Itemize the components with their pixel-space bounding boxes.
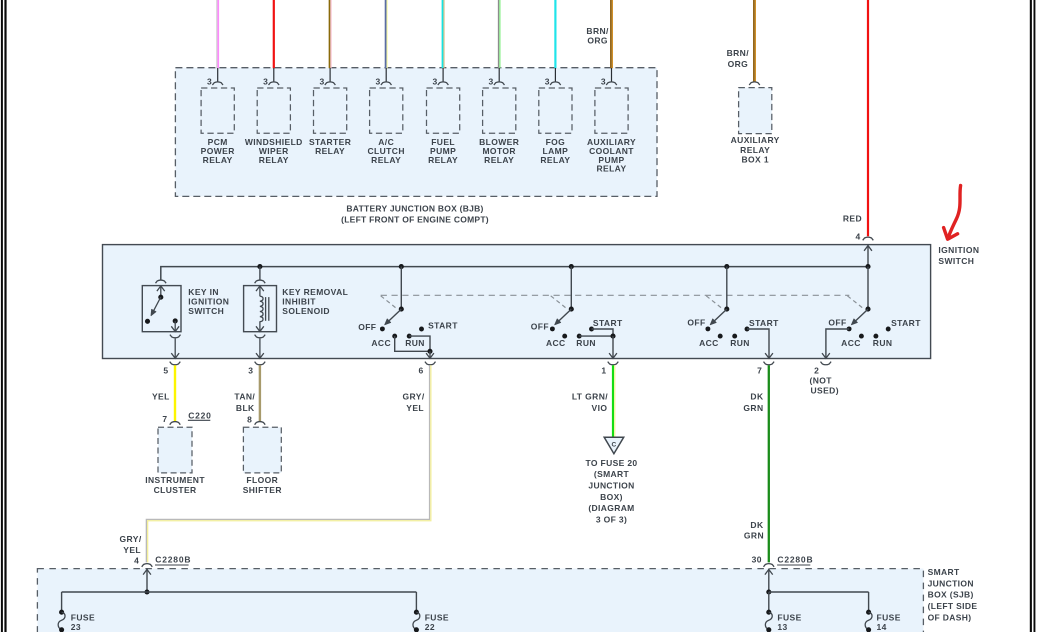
section 4 contacts OFF/ACC/RUN/START — [847, 326, 852, 331]
section 2 wiper feed — [570, 267, 572, 310]
svg-text:3: 3 — [545, 76, 550, 86]
auxiliary relay box 1 — [739, 88, 772, 134]
svg-text:CLUSTER: CLUSTER — [154, 485, 197, 495]
fuel pump relay — [427, 88, 460, 133]
svg-text:AUXILIARY: AUXILIARY — [731, 135, 780, 145]
svg-text:YEL: YEL — [152, 392, 170, 402]
svg-text:RUN: RUN — [576, 338, 596, 348]
svg-text:LT GRN/: LT GRN/ — [572, 392, 608, 402]
svg-text:23: 23 — [71, 622, 81, 632]
wire TAN/BLK — [259, 365, 261, 421]
svg-text:START: START — [593, 318, 623, 328]
svg-text:GRY/: GRY/ — [120, 534, 142, 544]
wire YEL — [174, 365, 176, 421]
ignition switch pin 7 — [764, 362, 775, 365]
svg-text:2: 2 — [814, 366, 819, 376]
fuel pump relay pin 3 lead — [442, 68, 444, 82]
svg-text:OFF: OFF — [531, 322, 549, 332]
svg-text:START: START — [891, 318, 921, 328]
fog lamp relay — [539, 88, 572, 133]
svg-text:3: 3 — [248, 366, 253, 376]
svg-text:RELAY: RELAY — [203, 155, 233, 165]
svg-text:3: 3 — [207, 76, 212, 86]
svg-text:DK: DK — [750, 520, 764, 530]
node: SJB left rail junction — [144, 589, 149, 594]
svg-text:RELAY: RELAY — [315, 146, 345, 156]
battery junction box (BJB) — [175, 68, 657, 197]
blower motor relay — [483, 88, 516, 133]
section 2 contacts OFF/ACC/RUN/START — [550, 326, 555, 331]
key-in switch blade — [152, 297, 161, 313]
svg-text:SHIFTER: SHIFTER — [243, 485, 282, 495]
svg-text:BRN/: BRN/ — [727, 48, 750, 58]
svg-text:3: 3 — [263, 76, 268, 86]
svg-text:RELAY: RELAY — [428, 155, 458, 165]
SJB left rail — [62, 591, 417, 593]
svg-text:ORG: ORG — [587, 36, 608, 46]
svg-text:6: 6 — [419, 366, 424, 376]
section 3 contacts OFF/ACC/RUN/START — [705, 326, 710, 331]
svg-text:RELAY: RELAY — [484, 155, 514, 165]
node: bus junction — [569, 264, 574, 269]
section 3 wiper feed — [726, 267, 728, 310]
A/C clutch relay pin 3 lead — [385, 68, 387, 82]
key-in exit connector — [170, 335, 181, 338]
instrument cluster — [158, 427, 192, 473]
wire CYN/TAN — [442, 0, 444, 68]
key-in switch exit arrow — [174, 321, 176, 331]
svg-text:1: 1 — [601, 366, 606, 376]
wire GRY/PK — [216, 0, 218, 68]
svg-text:USED): USED) — [811, 386, 839, 396]
svg-text:RELAY: RELAY — [740, 145, 770, 155]
svg-text:8: 8 — [247, 415, 252, 425]
svg-text:KEY IN: KEY IN — [188, 287, 219, 297]
svg-text:JUNCTION: JUNCTION — [588, 481, 634, 491]
wire CYN — [554, 0, 556, 68]
svg-text:C2280B: C2280B — [155, 555, 191, 565]
svg-text:OFF: OFF — [358, 322, 376, 332]
section 1 contacts OFF/ACC/RUN/START — [380, 326, 385, 331]
svg-text:RELAY: RELAY — [371, 155, 401, 165]
svg-text:ACC: ACC — [371, 338, 391, 348]
svg-text:GRN: GRN — [743, 403, 763, 413]
svg-text:30: 30 — [752, 555, 762, 565]
ignition switch box — [103, 245, 931, 359]
SJB pin 30 entry arrow — [768, 569, 770, 592]
svg-text:3: 3 — [319, 76, 324, 86]
key removal inhibit solenoid L1 — [244, 286, 277, 332]
svg-text:FUSE: FUSE — [425, 613, 449, 623]
svg-text:INHIBIT: INHIBIT — [282, 297, 316, 307]
wire RED — [273, 0, 275, 68]
solenoid core — [265, 297, 267, 321]
ignition switch pin 3 — [255, 362, 266, 365]
svg-text:IGNITION: IGNITION — [938, 245, 979, 255]
section 3 output — [747, 329, 769, 357]
fuse 14 — [866, 610, 871, 615]
key-in switch contacts — [145, 319, 150, 324]
SJB pin 4 entry arrow — [146, 569, 148, 592]
mechanical linkage (dashed) — [381, 294, 850, 296]
svg-text:5: 5 — [163, 366, 168, 376]
PCM power relay — [201, 88, 234, 133]
svg-text:KEY REMOVAL: KEY REMOVAL — [282, 287, 348, 297]
section 1 output — [395, 336, 430, 351]
section 3 wiper pivot — [724, 307, 729, 312]
svg-text:GRY/: GRY/ — [403, 392, 425, 402]
svg-text:ACC: ACC — [546, 338, 566, 348]
svg-text:SWITCH: SWITCH — [188, 306, 224, 316]
fuse 23 — [59, 610, 64, 615]
svg-text:BOX (SJB): BOX (SJB) — [928, 590, 974, 600]
svg-text:4: 4 — [856, 231, 861, 241]
section 4 linkage diagonal — [847, 296, 862, 308]
section 3 linkage diagonal — [706, 296, 721, 308]
section 4 wiper pivot — [865, 307, 870, 312]
node: bus junction — [399, 264, 404, 269]
section 2 linkage diagonal — [551, 296, 566, 308]
svg-text:ACC: ACC — [699, 338, 719, 348]
solenoid exit connector — [255, 335, 266, 338]
fuse 22 — [414, 610, 419, 615]
key-in ignition switch entry arrow — [160, 286, 162, 297]
svg-text:START: START — [428, 320, 458, 330]
svg-text:(SMART: (SMART — [594, 469, 630, 479]
svg-text:BLK: BLK — [236, 403, 255, 413]
node: bus/solenoid junction — [257, 264, 262, 269]
section 3 blade — [712, 309, 727, 323]
auxiliary coolant pump relay — [595, 88, 628, 133]
svg-text:TO FUSE 20: TO FUSE 20 — [586, 458, 638, 468]
svg-text:INSTRUMENT: INSTRUMENT — [145, 475, 205, 485]
red annotation arrow — [948, 186, 960, 238]
page border left — [1, 0, 3, 632]
svg-text:SOLENOID: SOLENOID — [282, 306, 330, 316]
svg-text:(DIAGRAM: (DIAGRAM — [588, 503, 634, 513]
svg-text:ORG: ORG — [728, 59, 749, 69]
svg-text:BOX): BOX) — [600, 492, 623, 502]
node: SJB right rail junction — [766, 589, 771, 594]
wire RED ignition feed — [867, 0, 869, 236]
page border right — [1030, 0, 1032, 632]
section 4 blade — [853, 309, 868, 323]
smart junction box (SJB) — [37, 569, 923, 632]
auxiliary coolant pump relay pin 3 lead — [611, 68, 613, 82]
section 2 output — [592, 329, 614, 336]
svg-text:IGNITION: IGNITION — [188, 297, 229, 307]
section 1 linkage diagonal — [381, 296, 396, 308]
svg-text:3: 3 — [601, 76, 606, 86]
svg-text:3: 3 — [489, 76, 494, 86]
ignition switch pin 5 — [170, 362, 181, 365]
svg-text:ACC: ACC — [841, 338, 861, 348]
windshield wiper relay — [257, 88, 290, 133]
svg-text:4: 4 — [134, 556, 139, 566]
svg-text:3 OF 3): 3 OF 3) — [596, 515, 627, 525]
key-in ignition switch connector — [156, 280, 167, 283]
floor shifter — [243, 427, 281, 473]
svg-text:RUN: RUN — [873, 338, 893, 348]
section 4 output — [826, 329, 849, 357]
section 2 wiper pivot — [569, 307, 574, 312]
svg-text:(LEFT SIDE: (LEFT SIDE — [928, 601, 978, 611]
svg-text:7: 7 — [162, 414, 167, 424]
svg-text:14: 14 — [877, 622, 887, 632]
svg-text:SWITCH: SWITCH — [938, 256, 974, 266]
wire GRY/YEL — [146, 365, 429, 562]
wire BRN/ORG to auxiliary relay box 1 — [753, 0, 755, 82]
SJB right rail — [769, 591, 869, 593]
section 4 wiper feed — [867, 267, 869, 310]
svg-text:C2280B: C2280B — [777, 555, 813, 565]
ignition switch pin 6 — [425, 362, 436, 365]
svg-text:YEL: YEL — [123, 545, 141, 555]
wire BRN/PK — [329, 0, 331, 68]
svg-text:TAN/: TAN/ — [234, 392, 255, 402]
svg-text:RELAY: RELAY — [596, 164, 626, 174]
off-page connector C (to fuse 20) — [604, 437, 624, 453]
svg-text:(NOT: (NOT — [810, 376, 833, 386]
svg-text:3: 3 — [376, 76, 381, 86]
fog lamp relay pin 3 lead — [554, 68, 556, 82]
svg-text:BATTERY JUNCTION BOX (BJB): BATTERY JUNCTION BOX (BJB) — [346, 203, 483, 213]
svg-text:OFF: OFF — [828, 318, 846, 328]
pin 4 entry arrow — [867, 246, 869, 267]
svg-text:13: 13 — [777, 622, 787, 632]
auxiliary relay box 1 connector — [749, 82, 760, 85]
section 1 wiper pivot — [399, 307, 404, 312]
svg-text:BOX 1: BOX 1 — [741, 155, 769, 165]
svg-text:GRN: GRN — [744, 531, 764, 541]
wire BLU/YEL — [385, 0, 387, 68]
svg-text:3: 3 — [432, 76, 437, 86]
node: bus junction — [724, 264, 729, 269]
svg-text:RELAY: RELAY — [540, 155, 570, 165]
PCM power relay pin 3 lead — [217, 68, 219, 82]
svg-text:DK: DK — [750, 392, 764, 402]
svg-text:RUN: RUN — [405, 338, 425, 348]
section 1 blade — [387, 309, 402, 323]
key in ignition switch S1 — [142, 286, 181, 332]
svg-text:START: START — [749, 318, 779, 328]
svg-text:SMART: SMART — [928, 567, 960, 577]
svg-text:7: 7 — [757, 366, 762, 376]
svg-text:C220: C220 — [188, 411, 212, 421]
internal bus wire — [161, 267, 868, 280]
blower motor relay pin 3 lead — [498, 68, 500, 82]
starter relay — [314, 88, 347, 133]
svg-text:YEL: YEL — [406, 403, 424, 413]
wire BRN/ORG — [610, 0, 612, 68]
svg-text:RUN: RUN — [730, 338, 750, 348]
wire DK GRN — [768, 365, 770, 562]
svg-text:FUSE: FUSE — [777, 613, 801, 623]
svg-text:22: 22 — [425, 622, 435, 632]
svg-text:BRN/: BRN/ — [586, 26, 609, 36]
svg-text:FUSE: FUSE — [71, 613, 95, 623]
section 2 blade — [557, 309, 572, 323]
svg-text:VIO: VIO — [592, 403, 608, 413]
node: bus/pin4 junction — [865, 264, 870, 269]
ignition switch pin 1 — [608, 362, 619, 365]
svg-text:C: C — [612, 442, 617, 449]
ignition switch pin 2 — [821, 362, 832, 365]
wire LT GRN/VIO — [612, 365, 614, 437]
svg-text:FUSE: FUSE — [877, 613, 901, 623]
svg-text:FLOOR: FLOOR — [246, 475, 278, 485]
solenoid entry arrow — [256, 286, 264, 291]
solenoid connector — [259, 267, 261, 280]
wire GRY/LT GRN — [498, 0, 500, 68]
svg-text:RELAY: RELAY — [259, 155, 289, 165]
windshield wiper relay pin 3 lead — [273, 68, 275, 82]
svg-text:JUNCTION: JUNCTION — [928, 578, 974, 588]
section 1 wiper feed — [400, 267, 402, 310]
svg-text:OFF: OFF — [687, 318, 705, 328]
svg-text:OF DASH): OF DASH) — [928, 612, 972, 622]
fuse 13 — [766, 610, 771, 615]
starter relay pin 3 lead — [329, 68, 331, 82]
solenoid coil — [260, 296, 263, 322]
svg-text:(LEFT FRONT OF ENGINE COMPT): (LEFT FRONT OF ENGINE COMPT) — [341, 215, 489, 225]
A/C clutch relay — [370, 88, 403, 133]
svg-text:RED: RED — [843, 213, 862, 223]
